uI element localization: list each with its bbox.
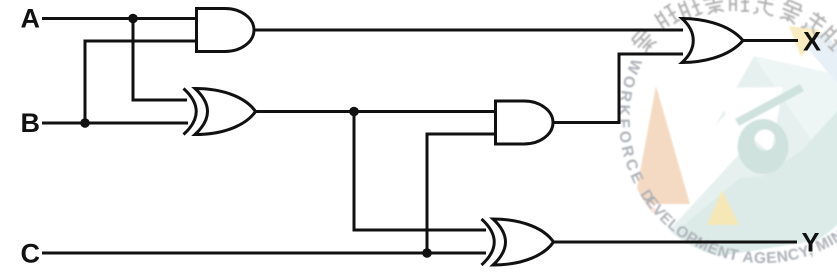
wire B input: [42, 122, 188, 125]
wire XOR2 output to Y: [551, 241, 797, 244]
watermark chinese ring (drawn glyphs): [630, 0, 837, 55]
junction dot A: [128, 14, 138, 24]
junction dot C: [422, 248, 432, 258]
xor-gate XOR1 body: [195, 89, 256, 135]
wire C input: [42, 252, 486, 255]
darker bottom swath: [668, 108, 837, 260]
watermark emblem shapes: [634, 14, 837, 260]
peach leaf left: [634, 86, 690, 204]
junction dot XOR1 out: [349, 107, 359, 117]
wire AND1 output to OR: [253, 29, 683, 32]
wire A branch down to XOR1: [133, 19, 187, 101]
or-gate OR1: [682, 19, 743, 63]
yellow triangle bottom center: [707, 190, 739, 225]
lighter band right: [754, 56, 837, 240]
svg-text:C: C: [21, 239, 41, 269]
white arrow overlay: [636, 87, 783, 238]
wire XOR1 output to AND2: [254, 110, 495, 113]
junction dot B: [80, 118, 90, 128]
teal bird diagonal stroke: [735, 84, 804, 126]
wire XOR1 branch down to XOR2: [354, 112, 486, 231]
wire B branch up to AND1: [85, 41, 195, 123]
wire A input: [42, 17, 195, 20]
svg-text:X: X: [803, 27, 821, 57]
xor-gate XOR2 input arc: [482, 219, 495, 265]
wire C branch up to AND2: [427, 134, 495, 253]
and-gate AND2: [496, 101, 554, 144]
teal bird loop: [738, 119, 789, 174]
pale yellow patch near X: [789, 26, 823, 57]
wire AND2 output up to OR: [552, 54, 683, 123]
watermark logo group: [615, 0, 837, 267]
xor-gate XOR1 input arc: [184, 89, 197, 135]
svg-text:A: A: [21, 4, 41, 34]
svg-text:Y: Y: [802, 228, 820, 258]
light blue triangle top-right: [792, 14, 837, 96]
svg-text:B: B: [21, 108, 41, 138]
and-gate AND1: [197, 9, 255, 52]
pinkish base under leaf: [637, 195, 660, 215]
xor-gate XOR2 body: [493, 219, 554, 265]
big light-teal field: [642, 56, 837, 258]
wire OR output to X: [742, 39, 798, 42]
